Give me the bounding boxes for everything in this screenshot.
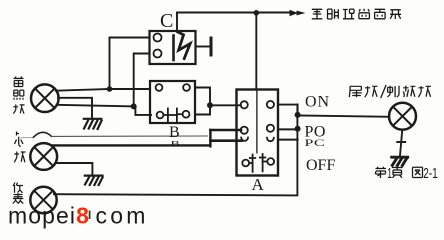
- wire: tail lamp ground lead: [397, 130, 405, 156]
- relay B pin 3: [157, 112, 164, 119]
- switch A pin 3: [241, 127, 248, 134]
- wire: A pin2 to ON node: [278, 105, 298, 115]
- svg-text:mopei8: mopei8: [8, 203, 90, 229]
- switch A pin 8: [267, 158, 274, 165]
- svg-text:2-1: 2-1: [423, 165, 438, 182]
- label to-key-switch text: [312, 9, 401, 19]
- node: junction headlamp high beam: [107, 86, 113, 92]
- svg-text:B: B: [169, 124, 180, 141]
- contact plate right of C: [210, 38, 213, 55]
- node: junction headlamp low beam: [131, 103, 137, 109]
- headlamp lamp: [31, 84, 59, 112]
- label meter lamp text: [13, 183, 23, 204]
- relay C terminal pin 2: [154, 50, 162, 58]
- tail lamp: [389, 103, 416, 130]
- junction dot top feed: [253, 10, 259, 16]
- wire: B pin4 loop to node: [195, 105, 210, 114]
- parking lamp: [30, 143, 57, 170]
- wire: parking lamp ground stub: [57, 163, 92, 175]
- relay C terminal pin 1: [154, 34, 162, 42]
- switch A pin 5 arc: [241, 138, 248, 141]
- contact element bottom of A: [249, 154, 267, 172]
- wire: bus bar into A pin5 arc: [210, 139, 241, 142]
- switch A pin 6 arc: [267, 138, 274, 141]
- ground headlamp: [84, 119, 102, 129]
- wire: headlamp ground stub: [58, 98, 92, 118]
- svg-text:A: A: [252, 175, 265, 194]
- relay C box: [150, 31, 196, 64]
- wire: node to switch A pin1: [210, 104, 241, 106]
- wire: vertical into flasher C top: [176, 13, 178, 32]
- wire: parking lamp feed to A: [53, 130, 210, 146]
- svg-text:ON: ON: [305, 94, 330, 111]
- contact element inside B: [163, 109, 182, 122]
- label page caption: [375, 167, 422, 178]
- switch A pin 7: [242, 160, 249, 167]
- switch A pin 4: [267, 125, 274, 132]
- wire: headlamp lower to node: [57, 105, 134, 107]
- switch A box: [237, 90, 279, 176]
- wire: node to relay B pin1: [110, 88, 151, 90]
- wire: A pin4 to PO node: [278, 128, 298, 130]
- ground tail lamp: [392, 157, 408, 165]
- wire: headlamp to node: [56, 89, 110, 91]
- label headlamp text: [13, 77, 24, 114]
- wire: parking hop wire thin: [21, 137, 34, 139]
- ground parking lamp: [85, 176, 103, 185]
- svg-text:C: C: [160, 10, 173, 32]
- svg-text:1: 1: [387, 165, 392, 182]
- resistor element inside C: [172, 36, 175, 61]
- wire: top feed to key switch: [177, 12, 290, 14]
- wire: C right lead: [196, 46, 210, 48]
- wire: ON node to tail lamp: [298, 116, 390, 117]
- node: PO junction: [295, 126, 301, 132]
- wire: B pin2 loop to node: [195, 88, 210, 106]
- switch A pin 2: [267, 101, 274, 108]
- svg-text:B: B: [171, 140, 180, 148]
- node: ON junction: [295, 112, 301, 118]
- node: B output junction: [207, 102, 213, 108]
- relay B pin 2: [183, 84, 190, 91]
- label tail-brake lamp text: [349, 85, 431, 98]
- svg-text:com: com: [96, 203, 149, 229]
- wire: meter lamp long feed: [54, 104, 297, 195]
- svg-text:OFF: OFF: [306, 157, 335, 174]
- relay B box: [150, 81, 195, 123]
- arrow to key switch: [290, 10, 306, 17]
- switch A contact bar: [256, 90, 258, 153]
- wire: C pin1 to node: [110, 38, 150, 90]
- meter lamp: [30, 187, 56, 213]
- wire: node step to B pin3: [134, 106, 151, 115]
- wire: vertical from top feed to switch A: [255, 13, 257, 90]
- wire: bus bar into A pin3: [210, 129, 241, 132]
- label parking lamp text: [14, 132, 25, 163]
- relay B pin 1: [156, 84, 163, 91]
- wire: A pin6 arc to bus: [278, 139, 298, 141]
- switch A pin 1: [241, 101, 248, 108]
- wire: C pin2 down to node: [134, 54, 150, 107]
- svg-text:PC: PC: [305, 137, 326, 148]
- relay B pin 4: [183, 111, 190, 118]
